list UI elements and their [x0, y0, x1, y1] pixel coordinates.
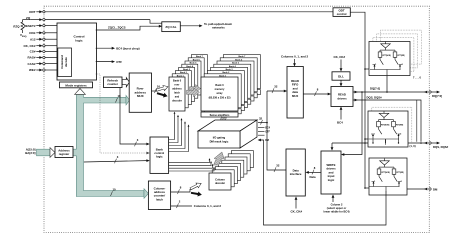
wire: columns 0,1,2 annotation at counter — [171, 205, 192, 207]
pin CK,CK# wire — [36, 45, 39, 47]
svg-text:Bank 4: Bank 4 — [229, 65, 237, 68]
svg-text:32: 32 — [276, 164, 280, 168]
svg-text:DM mask logic: DM mask logic — [210, 139, 229, 143]
hatched arrow: row decoders to memory arrays (back) — [190, 85, 201, 93]
wire: column address to column decoders, 8 — [171, 189, 190, 192]
wires: bank control to row latch stack — [169, 114, 189, 152]
svg-text:(select upper or: (select upper or — [327, 206, 346, 210]
wire: DQS strobe into WRITE drivers (top) — [331, 143, 333, 148]
svg-text:interface: interface — [290, 172, 302, 176]
wire: DQ pad cell to DQ line — [386, 76, 388, 93]
svg-text:DQS, DQS#: DQS, DQS# — [367, 96, 383, 100]
svg-text:10: 10 — [113, 188, 117, 192]
pad symbols: DM — [424, 188, 427, 191]
svg-text:16: 16 — [118, 94, 122, 98]
pin A12 wire — [36, 38, 39, 40]
block: data interface — [286, 149, 305, 196]
arrowhead into row-address MUX (teal) — [126, 95, 130, 105]
dashed wire: control logic to bank control — [96, 74, 147, 153]
svg-text:DM: DM — [265, 139, 269, 142]
block: refresh counter — [104, 77, 123, 88]
block: sense amplifiers — [201, 112, 238, 117]
svg-text:Columns 0, 1, and 2: Columns 0, 1, and 2 — [281, 54, 309, 58]
block: READ drivers — [331, 87, 353, 107]
stack: bank row-address latch and decoder (banks 7..1) — [172, 55, 207, 108]
svg-text:control: control — [337, 12, 347, 16]
pin labels — [23, 10, 35, 72]
wire: OTF into I/O gating — [258, 131, 265, 133]
svg-text:OTF: OTF — [265, 131, 270, 134]
svg-text:MUX: MUX — [137, 94, 144, 98]
pin ZQ wire — [31, 19, 40, 21]
wire: row MUX to bank row latches, 16 — [152, 90, 158, 92]
svg-text:Column 2: Column 2 — [331, 203, 343, 207]
block: DLL — [332, 72, 350, 80]
svg-text:counter: counter — [107, 82, 118, 86]
svg-text:RZQ: RZQ — [13, 25, 20, 29]
svg-text:Column: Column — [215, 177, 225, 181]
block: control logic — [57, 23, 97, 80]
svg-text:decoder: decoder — [172, 100, 182, 103]
svg-text:7 . . . 0: 7 . . . 0 — [413, 75, 421, 79]
svg-text:Sense amplifiers: Sense amplifiers — [210, 114, 230, 117]
stack: column decoders (banks 7..1) — [212, 151, 253, 187]
svg-text:drivers: drivers — [337, 96, 347, 100]
pad cell: DQ driver/receiver with ODT — [369, 42, 410, 76]
arrowhead into column-address counter (teal) — [144, 189, 148, 199]
svg-text:address: address — [172, 88, 182, 91]
svg-text:row-: row- — [174, 84, 179, 87]
svg-text:register: register — [59, 152, 70, 156]
svg-text:Columns 0, 1, and 2: Columns 0, 1, and 2 — [194, 204, 222, 208]
svg-text:Bank 4: Bank 4 — [186, 65, 194, 68]
hatched arrow: column decoders to I/O gating — [211, 152, 227, 165]
svg-text:decode: decode — [64, 57, 68, 67]
svg-text:CKE: CKE — [29, 31, 35, 35]
svg-text:OTF: OTF — [116, 60, 122, 64]
svg-text:MUX: MUX — [292, 94, 298, 98]
wire: ODT control to pad cells — [350, 12, 365, 188]
block: bank control logic — [150, 137, 169, 173]
bus label 32 (from data interface) — [274, 167, 276, 172]
svg-text:array: array — [216, 92, 223, 95]
svg-text:CK, CK#: CK, CK# — [334, 55, 346, 59]
pad cell: DQS driver/receiver with ODT — [368, 111, 408, 147]
svg-text:Bank 0: Bank 0 — [215, 84, 224, 87]
wires: bank control to column decoder stack — [169, 160, 214, 171]
pin RESET# wire — [36, 25, 39, 27]
svg-text:RAS#: RAS# — [27, 56, 35, 60]
bus width tick 16 on row branch — [116, 98, 118, 103]
block: column-address counter/latch — [148, 181, 170, 210]
solid fan arrow to row latch stack — [156, 91, 168, 99]
svg-text:latch: latch — [156, 197, 163, 201]
svg-text:32: 32 — [274, 85, 278, 89]
block: row-address MUX — [129, 73, 151, 112]
wire: BC4 into I/O gating — [258, 127, 265, 129]
svg-text:DLL: DLL — [338, 74, 344, 78]
block: ZQ CAL — [162, 22, 181, 32]
svg-text:Data: Data — [310, 175, 317, 179]
wire: DQS line — [332, 142, 428, 144]
svg-text:BC4: BC4 — [337, 120, 343, 124]
svg-text:CAS#: CAS# — [27, 62, 35, 66]
hatched arrow: row decoders to memory arrays — [187, 88, 200, 97]
svg-text:Bank 6: Bank 6 — [235, 59, 243, 61]
pin CS# wire — [36, 50, 39, 52]
arrowhead into mode registers (white) — [75, 89, 86, 95]
svg-text:BC4: BC4 — [265, 127, 270, 130]
wire: DQ write data into WRITE drivers (right) — [344, 92, 362, 155]
svg-text:BC4 (burst chop): BC4 (burst chop) — [116, 46, 139, 50]
pad symbols: DQ — [424, 91, 427, 94]
wire: DQS pad cell to DQS line — [385, 140, 387, 144]
wire: ECC stub into I/O gating — [258, 134, 265, 136]
pin CKE wire — [36, 32, 39, 34]
bus label 32 (to READ FIFO) — [272, 88, 274, 93]
svg-text:Bank 3: Bank 3 — [226, 69, 234, 71]
pin WE# wire — [36, 69, 39, 71]
wire: DLL to READ drivers — [340, 80, 342, 83]
svg-text:ZQ CAL: ZQ CAL — [165, 25, 176, 29]
wire: READ FIFO to READ drivers, 8 — [303, 93, 328, 95]
block: I/O gating / DM mask logic (3D slab) — [198, 120, 257, 131]
block: address register — [55, 147, 73, 158]
svg-text:latch: latch — [174, 92, 180, 95]
svg-text:32: 32 — [259, 116, 263, 120]
block: bank 0 memory array — [201, 77, 238, 111]
block: mode registers — [60, 82, 93, 88]
svg-text:memory: memory — [215, 88, 225, 91]
annotation: BC4 (burst chop) — [96, 47, 113, 49]
svg-text:logic: logic — [328, 178, 335, 182]
chip boundary (dashed border) — [44, 6, 429, 232]
svg-text:decoder: decoder — [215, 181, 225, 185]
wire: WRITE drivers to data interface, 8 Data — [309, 171, 322, 173]
svg-text:Mode registers: Mode registers — [65, 83, 87, 87]
block: command decode (inside control logic) — [58, 48, 72, 77]
wire: DQ line (READ drivers to DQ pads) — [353, 91, 427, 93]
svg-text:WE#: WE# — [29, 68, 36, 72]
solid fan arrow to column decoder stack — [191, 190, 203, 197]
wire: DM line — [407, 188, 428, 190]
ODT enable stubs into pad cells — [365, 69, 369, 188]
external resistor RZQ to VSSQ on ZQ pin — [21, 20, 31, 33]
open fan arrow to column decoder stack — [189, 181, 202, 191]
wire: refresh counter to bank control, 3 — [120, 88, 147, 145]
annotation: ZQCL, ZQCS output of control logic — [96, 26, 162, 30]
svg-text:Bank 6: Bank 6 — [193, 59, 201, 61]
svg-text:Bank 5: Bank 5 — [232, 63, 240, 65]
block: ODT control — [333, 8, 350, 17]
svg-text:DQ[7:0]: DQ[7:0] — [370, 86, 380, 90]
dotted stack behind DQS pad cell — [372, 107, 412, 143]
svg-text:Bank 3: Bank 3 — [183, 69, 191, 71]
input bus A[15:0] BA[2:0] (teal arrow) — [37, 149, 51, 156]
svg-text:CS#: CS# — [30, 50, 36, 54]
stack: bank memory arrays + sense amplifiers (banks 7..1) — [204, 55, 260, 114]
pin ODT wire — [36, 11, 39, 13]
svg-text:Bank 5: Bank 5 — [190, 63, 198, 65]
svg-text:Bank 0: Bank 0 — [173, 80, 182, 83]
svg-text:logic: logic — [156, 155, 163, 159]
pad symbols: DQS, DQS# — [424, 142, 427, 145]
hatched arrow: sense amps to I/O gating — [213, 118, 229, 131]
svg-text:RESET#: RESET# — [24, 24, 36, 28]
pad cell: DM receiver with ODT — [369, 158, 407, 195]
wire: bank address to bank control logic, 3 — [84, 161, 147, 162]
svg-text:Bank 7: Bank 7 — [238, 56, 246, 58]
wires: DQS cell loop stems — [372, 139, 374, 143]
pin arrowheads and pad circles — [39, 10, 42, 71]
svg-text:BA[2:0]: BA[2:0] — [25, 151, 35, 155]
wire: DM mask into I/O gating (from DM pad cell) — [261, 140, 387, 225]
bus label 32 (I/O gating) — [261, 120, 263, 125]
pin RAS# wire — [36, 57, 39, 59]
svg-text:Bank 2: Bank 2 — [180, 72, 188, 74]
svg-text:DQS, DQS#: DQS, DQS# — [433, 145, 449, 149]
svg-text:I/O gating: I/O gating — [213, 136, 226, 140]
dotted stack behind DQ pad cell — [373, 30, 422, 72]
svg-text:CK, CK#: CK, CK# — [23, 44, 35, 48]
open fan arrow to row latch stack — [156, 84, 169, 93]
svg-text:A12: A12 — [30, 37, 36, 41]
block: bank 0 row-address latch and decoder — [169, 77, 185, 111]
svg-text:Bank 7: Bank 7 — [196, 56, 204, 58]
svg-text:DM: DM — [433, 187, 438, 191]
svg-text:CK, CK#: CK, CK# — [291, 209, 303, 213]
annotation: OTF — [96, 61, 113, 63]
block: bank 0 column decoder — [209, 173, 231, 190]
svg-text:DQ[7:0]: DQ[7:0] — [432, 94, 442, 98]
svg-text:Bank 2: Bank 2 — [222, 72, 230, 74]
svg-text:logic: logic — [75, 39, 82, 43]
internal data bus (vertical) — [258, 91, 286, 170]
svg-text:(1, 0): (1, 0) — [410, 144, 416, 148]
wire: DM pad cell to mask route — [385, 192, 387, 196]
pin CAS# wire — [36, 63, 39, 65]
bus width tick 10 on column branch — [111, 191, 113, 196]
address bus (teal trunk) — [73, 94, 144, 196]
svg-text:(65,536 x 256 x 32): (65,536 x 256 x 32) — [209, 96, 231, 99]
svg-text:lower nibble for BC4): lower nibble for BC4) — [323, 209, 349, 213]
svg-text:ZQCL, ZQCS: ZQCL, ZQCS — [108, 26, 126, 30]
annotation: to pull-up/pull-down networks — [180, 25, 200, 27]
block: WRITE drivers and input logic — [321, 151, 341, 194]
open arrow: refresh counter to row-address MUX — [122, 78, 129, 87]
svg-text:and: and — [175, 96, 180, 99]
wire: DQS# companion line — [416, 100, 418, 142]
block: READ FIFO and data MUX — [287, 67, 303, 119]
wire: DQS out line (READ drivers down to DQS wire) — [353, 100, 421, 142]
left pin group — [31, 12, 333, 70]
svg-text:networks: networks — [212, 26, 225, 30]
svg-text:ODT: ODT — [29, 10, 36, 14]
